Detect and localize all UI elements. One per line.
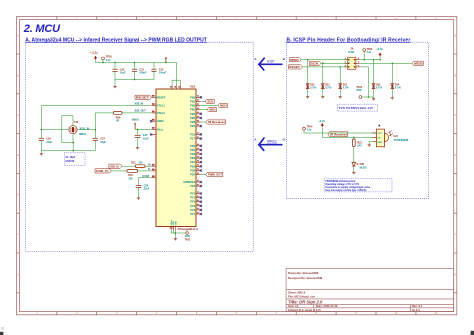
svg-text:File: MCU.kicad_sch: File: MCU.kicad_sch bbox=[288, 295, 315, 299]
svg-text:D20: D20 bbox=[310, 85, 315, 87]
svg-text:220: 220 bbox=[128, 177, 133, 180]
testpoint TP22 bbox=[363, 49, 366, 52]
label SCK B bbox=[309, 61, 321, 65]
svg-text:R21: R21 bbox=[131, 161, 136, 164]
wire IR Receiver bbox=[200, 121, 205, 123]
svg-text:IRREC: IRREC bbox=[267, 140, 278, 144]
svg-text:PD0: PD0 bbox=[190, 144, 196, 148]
svg-text:AREF: AREF bbox=[157, 119, 164, 123]
svg-text:+3,3v: +3,3v bbox=[318, 119, 325, 123]
capacitor C21 bbox=[134, 62, 136, 64]
wire IR out bbox=[304, 132, 376, 134]
label USB_D+ bbox=[109, 164, 122, 168]
ir receiver U21 bbox=[385, 133, 389, 141]
wire MISO bbox=[200, 109, 207, 111]
svg-text:6,7V0: 6,7V0 bbox=[376, 88, 383, 90]
wire SCK B bbox=[321, 62, 348, 64]
svg-text:PF4: PF4 bbox=[190, 200, 195, 204]
svg-text:G: G bbox=[454, 274, 456, 276]
svg-text:PF5: PF5 bbox=[190, 204, 195, 208]
svg-text:PD6: PD6 bbox=[190, 168, 196, 172]
tvs diode D22 bbox=[339, 67, 341, 83]
svg-text:MOSI: MOSI bbox=[220, 104, 226, 108]
svg-text:PB4: PB4 bbox=[190, 112, 196, 116]
ground MCU bbox=[174, 233, 176, 238]
resistor R22 bbox=[111, 170, 127, 172]
svg-text:Insensitive to supply voltage/: Insensitive to supply voltage/ripple noi… bbox=[325, 186, 371, 189]
svg-text:D23: D23 bbox=[376, 85, 381, 87]
svg-text:RESET: RESET bbox=[136, 95, 150, 99]
svg-text:6,7V0: 6,7V0 bbox=[325, 88, 332, 90]
svg-text:MISO: MISO bbox=[290, 58, 299, 62]
svg-text:+3,3v: +3,3v bbox=[376, 47, 383, 51]
svg-text:D21: D21 bbox=[325, 85, 330, 87]
power stub on rail bbox=[165, 58, 167, 60]
wire xtal gnd rail bbox=[41, 150, 95, 152]
svg-text:PC6: PC6 bbox=[190, 132, 196, 136]
resistor R21 bbox=[122, 165, 135, 167]
power flag VBUS bbox=[134, 123, 136, 125]
hierarchical link IRREC bbox=[259, 138, 282, 150]
wire XTAL1 drop bbox=[40, 106, 42, 139]
svg-text:U21: U21 bbox=[393, 135, 398, 138]
wire header vcc bbox=[360, 59, 380, 61]
svg-text:SCK: SCK bbox=[310, 61, 319, 65]
svg-text:Size: A4: Size: A4 bbox=[288, 304, 299, 308]
screenshot corner artifacts bbox=[0, 332, 3, 335]
svg-text:U20: U20 bbox=[190, 85, 196, 89]
svg-text:Operating voltage: 2,5V to 5,5: Operating voltage: 2,5V to 5,5V bbox=[325, 183, 359, 186]
svg-text:MISO: MISO bbox=[209, 108, 216, 112]
wire UCAP bbox=[139, 177, 152, 179]
svg-text:PB3: PB3 bbox=[190, 108, 196, 112]
svg-text:GND: GND bbox=[356, 89, 362, 92]
svg-text:CL 10pF: CL 10pF bbox=[66, 156, 76, 159]
svg-text:HWB/PE2: HWB/PE2 bbox=[183, 180, 195, 184]
ground header bbox=[373, 97, 375, 98]
svg-text:AVcc: AVcc bbox=[157, 127, 164, 131]
svg-text:PWM_OUT: PWM_OUT bbox=[208, 173, 222, 177]
svg-text:6,7V0: 6,7V0 bbox=[310, 88, 317, 90]
svg-text:Rev: 0.1: Rev: 0.1 bbox=[412, 304, 423, 308]
svg-text:B. ICSP Pin Header For Bootloa: B. ICSP Pin Header For Bootloading/ IR R… bbox=[287, 37, 411, 43]
svg-text:USB_D+: USB_D+ bbox=[110, 164, 120, 168]
label MISO B bbox=[290, 58, 302, 62]
capacitor C25 bbox=[137, 129, 139, 135]
wire rail to VCC pins bbox=[176, 63, 178, 86]
svg-text:PB5: PB5 bbox=[190, 116, 196, 120]
svg-text:IR Receiver: IR Receiver bbox=[330, 132, 347, 136]
svg-text:IR Receiver: IR Receiver bbox=[208, 120, 226, 124]
crystal Y20 bbox=[69, 126, 77, 134]
svg-text:PD5: PD5 bbox=[190, 164, 196, 168]
svg-text:PD4: PD4 bbox=[190, 160, 196, 164]
svg-text:D-: D- bbox=[148, 168, 151, 171]
svg-text:PF7: PF7 bbox=[190, 212, 195, 216]
svg-text:G: G bbox=[17, 274, 19, 276]
svg-text:XTAL1: XTAL1 bbox=[157, 104, 166, 108]
svg-text:PC7: PC7 bbox=[190, 137, 196, 141]
svg-text:USB_D-: USB_D- bbox=[96, 169, 109, 173]
capacitor C19 bbox=[39, 138, 44, 140]
section A note box bbox=[26, 42, 254, 251]
ground led bbox=[352, 172, 355, 174]
svg-text:GND: GND bbox=[377, 142, 382, 144]
svg-text:PD3: PD3 bbox=[190, 156, 196, 160]
svg-text:MOSI: MOSI bbox=[414, 61, 422, 65]
label PWM_OUT bbox=[206, 172, 223, 176]
label MOSI bbox=[218, 103, 228, 107]
svg-text:RESET: RESET bbox=[289, 65, 300, 69]
svg-text:D22: D22 bbox=[343, 85, 348, 87]
svg-text:3,3v: 3,3v bbox=[367, 51, 372, 54]
ground C26 bbox=[137, 198, 140, 200]
svg-text:+3,3v: +3,3v bbox=[90, 51, 98, 55]
TSOP note box bbox=[324, 179, 392, 192]
resistor R23 bbox=[353, 137, 355, 139]
tvs diode D24 bbox=[391, 63, 393, 83]
mcu gnd pins bbox=[171, 227, 175, 231]
svg-text:D24: D24 bbox=[395, 84, 400, 87]
led D26 bbox=[352, 162, 358, 167]
title block bbox=[286, 269, 454, 312]
MCU VCC top pins bbox=[172, 85, 180, 89]
mcu U5 body bbox=[156, 89, 196, 227]
capacitor C22 bbox=[153, 63, 155, 70]
svg-text:ICSP: ICSP bbox=[267, 60, 275, 64]
wire crystal case gnd loop bbox=[62, 116, 74, 143]
tvs diode D20 bbox=[307, 60, 309, 83]
svg-text:PB7: PB7 bbox=[190, 124, 196, 128]
wire MOSI bbox=[200, 105, 217, 107]
wire XTAL2 to cap bbox=[95, 112, 113, 114]
label SCK bbox=[205, 99, 214, 103]
svg-text:XSE_OUT: XSE_OUT bbox=[135, 110, 147, 113]
svg-text:VBUS: VBUS bbox=[132, 119, 139, 122]
svg-text:GND: GND bbox=[175, 220, 177, 225]
label MOSI B bbox=[412, 61, 424, 65]
crystal note box bbox=[64, 153, 85, 166]
svg-text:Designed By: Breece2498: Designed By: Breece2498 bbox=[288, 276, 323, 280]
svg-text:UCAP: UCAP bbox=[142, 175, 149, 178]
wire xtal left bbox=[41, 129, 68, 131]
svg-text:TVS PESD5V1BA,115: TVS PESD5V1BA,115 bbox=[339, 106, 374, 110]
ground A caps bbox=[114, 80, 116, 86]
svg-text:OUT: OUT bbox=[377, 133, 382, 135]
ground C25 bbox=[136, 148, 139, 150]
svg-text:PD1: PD1 bbox=[190, 148, 196, 152]
ir arrows bbox=[389, 131, 393, 136]
wire tsop gnd bbox=[369, 141, 372, 143]
svg-text:PF0: PF0 bbox=[190, 192, 195, 196]
label RESET bbox=[135, 95, 152, 99]
tvs diode D23 bbox=[373, 59, 375, 61]
capacitor C20 bbox=[114, 62, 116, 64]
testpoint TP21 bbox=[186, 232, 189, 235]
wire XTAL1 bbox=[41, 105, 151, 107]
svg-text:PB2: PB2 bbox=[190, 104, 196, 108]
svg-text:Title: DR Sign 2.0: Title: DR Sign 2.0 bbox=[288, 300, 323, 305]
svg-text:SCK: SCK bbox=[207, 100, 214, 104]
wire XTAL2 bbox=[122, 112, 152, 114]
svg-text:PF6: PF6 bbox=[190, 208, 195, 212]
svg-text:Drawn By: Breece2498: Drawn By: Breece2498 bbox=[288, 271, 319, 275]
svg-text:PE6: PE6 bbox=[190, 184, 195, 188]
wire SCK bbox=[200, 100, 205, 102]
section B note box bbox=[286, 42, 428, 199]
capacitor C26 bbox=[136, 185, 142, 187]
wire gnd join bbox=[170, 230, 172, 233]
svg-text:16MHz: 16MHz bbox=[79, 133, 87, 136]
svg-text:6,7V0: 6,7V0 bbox=[343, 88, 350, 90]
svg-text:PD7: PD7 bbox=[190, 173, 196, 177]
svg-text:6,7V0: 6,7V0 bbox=[395, 88, 402, 90]
hierarchical link ICSP bbox=[259, 58, 282, 70]
mcu left pins bbox=[152, 96, 156, 98]
svg-text:PF1: PF1 bbox=[190, 196, 195, 200]
svg-text:Very low supply current (typ.: Very low supply current (typ. 0,35mA) bbox=[325, 189, 366, 192]
svg-text:2. MCU: 2. MCU bbox=[23, 23, 61, 35]
label IR Receiver bbox=[206, 120, 226, 124]
svg-text:MLED: MLED bbox=[360, 166, 367, 169]
wire power rail bbox=[95, 60, 97, 62]
svg-text:KiCad E.D.A. kicad (6.0.2): KiCad E.D.A. kicad (6.0.2) bbox=[288, 308, 321, 312]
wire xtal right bbox=[77, 129, 95, 131]
svg-text:16pF: 16pF bbox=[100, 141, 106, 144]
svg-text:Y20: Y20 bbox=[74, 121, 79, 124]
label IR Receiver B bbox=[328, 132, 348, 137]
wire PWM_OUT bbox=[200, 174, 205, 176]
svg-text:XTAL_IN: XTAL_IN bbox=[80, 127, 90, 130]
svg-text:22uF: 22uF bbox=[144, 188, 150, 191]
dnc mark bbox=[379, 125, 381, 127]
svg-text:TSOP38238: TSOP38238 bbox=[393, 138, 408, 142]
mcu right pins bbox=[196, 96, 200, 98]
testpoint TP20 bbox=[102, 57, 105, 60]
label MISO bbox=[207, 108, 216, 112]
svg-text:Id: 1/4: Id: 1/4 bbox=[412, 308, 420, 312]
svg-text:TSOP38238 Characteristics:: TSOP38238 Characteristics: bbox=[325, 180, 356, 183]
wire RESET B bbox=[302, 66, 347, 68]
svg-text:22uF: 22uF bbox=[143, 137, 149, 140]
wire VBUS bbox=[135, 128, 152, 130]
connector J9 ICSP bbox=[348, 57, 356, 69]
resistor R20 bbox=[113, 112, 122, 115]
svg-text:Date: 2022-07-29: Date: 2022-07-29 bbox=[316, 304, 338, 308]
wire header mosi bbox=[360, 62, 412, 64]
svg-text:3,3v: 3,3v bbox=[106, 59, 111, 62]
svg-text:10uF: 10uF bbox=[120, 72, 126, 75]
svg-text:PB1: PB1 bbox=[190, 99, 196, 103]
tvs diode D21 bbox=[322, 63, 324, 83]
wire cap gnd rail bbox=[115, 79, 154, 81]
svg-text:RESET: RESET bbox=[157, 95, 166, 99]
label RESET B bbox=[289, 65, 303, 69]
ground crystal bbox=[40, 151, 42, 154]
wire IR vs bbox=[321, 128, 323, 138]
svg-text:XSE_IN: XSE_IN bbox=[135, 102, 144, 105]
wire MISO B bbox=[301, 59, 347, 61]
svg-text:1K0: 1K0 bbox=[357, 145, 362, 148]
ground tsop bbox=[368, 145, 371, 147]
TVS note box bbox=[337, 104, 378, 111]
testpoint TP24 bbox=[303, 127, 306, 130]
wire vcc fork bbox=[172, 79, 180, 81]
svg-text:ATmega32U4-A: ATmega32U4-A bbox=[178, 227, 198, 231]
svg-text:100nF: 100nF bbox=[159, 72, 167, 75]
svg-text:PB6: PB6 bbox=[190, 120, 196, 124]
svg-text:ESR 80: ESR 80 bbox=[66, 160, 75, 163]
capacitor C24 bbox=[93, 138, 98, 140]
wire header gnd bbox=[360, 66, 369, 68]
svg-text:PB0: PB0 bbox=[190, 95, 196, 99]
svg-text:A. Atmega32u4 MCU --> Infared: A. Atmega32u4 MCU --> Infared Receiver S… bbox=[25, 37, 206, 43]
svg-text:100nF: 100nF bbox=[139, 72, 147, 75]
svg-text:TP21: TP21 bbox=[185, 239, 191, 242]
svg-text:XTAL2: XTAL2 bbox=[157, 111, 166, 115]
label USB_D- bbox=[95, 169, 111, 173]
svg-text:220: 220 bbox=[139, 161, 144, 164]
svg-text:3,3v: 3,3v bbox=[307, 129, 312, 132]
svg-text:ICSP: ICSP bbox=[348, 50, 354, 54]
svg-text:10pF: 10pF bbox=[46, 141, 52, 144]
svg-text:PD2: PD2 bbox=[190, 152, 196, 156]
